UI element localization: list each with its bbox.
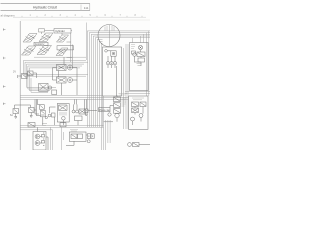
gauge RB1 B — [110, 62, 113, 65]
bus valve BB1 — [28, 123, 35, 128]
frame top faint rule — [20, 19, 150, 21]
svg-text:Cylinder: Cylinder — [55, 29, 65, 33]
valve P3 — [57, 35, 69, 42]
junction box JX — [85, 109, 89, 113]
label small box — [39, 29, 45, 32]
margin tick row C — [3, 103, 6, 105]
relief valve RV1 — [22, 74, 28, 79]
vertical drops bottom mid — [62, 127, 64, 150]
ruler ticks — [22, 16, 142, 17]
label text swing — [119, 94, 128, 96]
gauge RLB2 — [139, 114, 143, 118]
bus mid 2 — [20, 97, 128, 99]
vertical drops bottom right — [104, 96, 111, 150]
gauge PS — [108, 113, 111, 116]
solenoid valve SB — [29, 108, 35, 113]
bus corner L3 — [27, 64, 85, 87]
valve P1 — [23, 34, 37, 43]
tank box TB — [33, 132, 46, 151]
valve group G1 box — [57, 65, 67, 71]
bus bottom 2 — [20, 126, 103, 128]
hatch LB1b — [60, 112, 66, 116]
tick RB2e — [137, 64, 142, 66]
wires TV — [66, 135, 88, 145]
wire drops at right edge — [133, 31, 149, 96]
valve RV1b — [28, 71, 34, 76]
wire VC1 down — [42, 117, 44, 126]
gauge RB1 A — [106, 62, 109, 65]
bus mid 3 — [20, 98, 128, 100]
bundle long vertical — [86, 23, 88, 61]
pilot circle RB1p1 — [105, 50, 108, 53]
valve P6 — [56, 48, 68, 56]
wires RLB — [133, 107, 144, 126]
gauge RB1 C — [113, 62, 116, 65]
gauge RLB1 — [131, 117, 135, 121]
header top rule — [1, 3, 91, 5]
bus bottom 3 — [20, 129, 52, 131]
bus corner L4 — [28, 66, 82, 89]
valve column VC1 bottom — [41, 110, 46, 117]
box RLB — [129, 96, 149, 129]
gauge VS — [115, 113, 119, 117]
bundle wire 6 — [97, 39, 102, 127]
header bottom rule — [1, 9, 91, 11]
bus bottom 1 — [20, 124, 103, 126]
box MRL — [75, 116, 83, 121]
bus lower run 6 — [31, 78, 48, 92]
box LB1 — [57, 104, 69, 123]
bus comp BB3 — [60, 123, 66, 127]
frame left border — [19, 21, 21, 150]
wire cluster joins — [42, 30, 63, 51]
bus corner L2 — [25, 62, 88, 76]
valve TVb — [78, 134, 83, 139]
valve P2 — [39, 33, 53, 42]
small rect RB2d — [132, 51, 136, 54]
bundle wire 2 — [89, 33, 150, 127]
pilot comp RB1p2 — [111, 51, 116, 56]
wire PL — [50, 107, 56, 125]
spring RV1 — [17, 75, 22, 78]
label hatch top — [132, 98, 144, 100]
margin tick row A2 — [3, 57, 6, 59]
header separator tick — [80, 5, 82, 11]
valve MRX — [79, 109, 86, 114]
gauge MR2 — [76, 110, 79, 113]
bus lower run 5 — [29, 90, 50, 92]
valve P5 — [37, 46, 52, 55]
tank dots — [43, 133, 45, 146]
bundle wire 7 — [99, 41, 102, 127]
valve RB2a — [137, 52, 145, 57]
small circle XC1 — [48, 86, 51, 89]
travel box TV — [69, 132, 86, 141]
svg-text:111: 111 — [84, 6, 89, 10]
ruler numerals — [30, 15, 137, 17]
label box pressure switch — [99, 108, 110, 112]
label travel — [70, 130, 78, 132]
wire riser right — [67, 30, 73, 67]
bus corner L1 — [24, 60, 86, 74]
bottom-right gauge BRG — [128, 143, 132, 147]
side comp TVc — [87, 134, 90, 139]
pump circle RB2b — [133, 53, 137, 57]
valve group G2 box — [57, 77, 67, 83]
valve box XB1 — [39, 83, 48, 91]
motor circle M1 — [138, 45, 142, 49]
wire LB1 — [62, 120, 64, 125]
label box right2 — [57, 46, 74, 50]
valve RB2c — [138, 58, 145, 62]
gauge circle G2 — [68, 78, 73, 83]
stack side ticks — [122, 98, 127, 106]
bundle wire 3 — [91, 34, 150, 127]
hatch label RB2 — [131, 45, 135, 49]
gauge MR1 — [72, 110, 75, 113]
pump PB2 — [35, 141, 40, 146]
wires RB1 — [108, 56, 116, 96]
wires VS — [104, 96, 118, 122]
small box PL2 — [52, 113, 56, 117]
bus nest extra — [34, 56, 86, 58]
box RB1 — [103, 47, 122, 96]
valve column VC1 top — [40, 105, 45, 110]
solenoid valve SA — [13, 109, 19, 114]
valve P4 — [22, 46, 37, 55]
valve RLBc — [140, 102, 146, 107]
wires G — [53, 68, 78, 96]
header end cap — [89, 4, 91, 11]
bus mid 1 — [20, 95, 102, 97]
wire G risers — [59, 57, 65, 95]
small rect XR1 — [52, 90, 57, 95]
pump PB1 — [35, 134, 40, 139]
feeder corners VC1 — [35, 99, 41, 115]
wires RB2 — [135, 50, 142, 66]
margin tick row A — [3, 28, 6, 30]
bus lower run 3 — [27, 86, 57, 88]
bus lower run 2 — [25, 75, 86, 77]
bundle wire 8 — [101, 43, 102, 150]
tank inner rects — [42, 135, 45, 138]
gauge circle G1 — [68, 65, 73, 70]
wire SA-SB link — [15, 105, 37, 110]
gauge dots — [108, 62, 115, 64]
gauge LB1c — [62, 117, 66, 121]
bus lower run 1 — [24, 74, 88, 76]
circle VC1c — [45, 116, 47, 118]
valve RLBb — [132, 108, 139, 113]
gauge TVd — [87, 140, 90, 143]
wire JX stub — [88, 110, 97, 112]
bundle wire 4 — [93, 36, 150, 127]
wires TB — [38, 128, 49, 151]
box RB2 — [130, 43, 149, 91]
bus ticks BB2 — [42, 124, 47, 126]
margin tick row B — [3, 85, 6, 87]
vertical link right — [102, 96, 104, 127]
wire PS — [110, 106, 114, 108]
bus corner L5 — [29, 68, 80, 91]
bus right low 2 — [125, 93, 150, 95]
valve LB1a — [59, 105, 68, 111]
wires MR — [74, 99, 87, 125]
bottom-right valve BRV — [133, 143, 140, 147]
valve stack VS3 — [114, 109, 121, 114]
bus right low 1 — [125, 91, 150, 93]
svg-text:Hydraulic Circuit: Hydraulic Circuit — [33, 6, 57, 10]
detail circle — [98, 25, 120, 47]
circle inner ticks — [105, 26, 114, 31]
bundle wire 1 — [87, 31, 150, 127]
vertical drops bottom left — [51, 127, 53, 150]
circle centre vertical — [109, 25, 111, 46]
verticals between right boxes — [124, 44, 129, 129]
small circle PL1 — [48, 114, 51, 117]
bundle wire 5 — [95, 38, 150, 127]
ruler line — [13, 16, 146, 18]
valve TVa — [71, 134, 77, 139]
svg-text:2V: 2V — [13, 71, 16, 74]
bus lower run 4 — [28, 88, 52, 90]
valve RLBa — [132, 102, 139, 107]
label box cylinder — [54, 29, 71, 33]
label box control — [34, 42, 48, 45]
svg-text:6A: 6A — [10, 114, 13, 117]
valve stack VS1 — [114, 97, 121, 102]
svg-text:Press. sw: Press. sw — [100, 109, 110, 112]
svg-text:al diagram: al diagram — [1, 14, 16, 18]
valve stack VS2 — [114, 103, 121, 108]
